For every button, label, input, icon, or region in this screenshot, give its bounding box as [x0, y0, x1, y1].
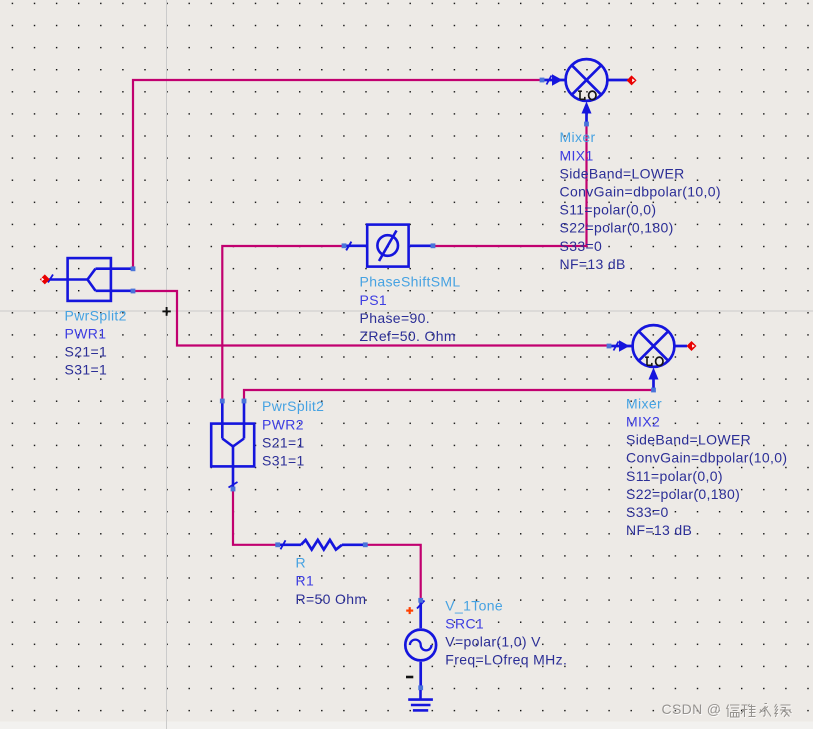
svg-text:S31=1: S31=1 — [262, 453, 305, 469]
svg-text:PWR2: PWR2 — [262, 416, 304, 432]
svg-text:Mixer: Mixer — [626, 395, 662, 411]
pin MIX1.out unconnected (red diamond) — [627, 75, 637, 85]
wire PWR2.in to R1.left — [233, 491, 277, 545]
plus sign — [406, 607, 413, 614]
label PWR1 — [65, 307, 127, 377]
svg-text:PWR1: PWR1 — [65, 326, 107, 342]
resistor R1 — [278, 540, 365, 550]
node PWR2.out2 — [242, 399, 247, 404]
node MIX1.lo — [584, 122, 589, 127]
wire PWR2.out2 to MIX2.lo — [244, 390, 653, 399]
svg-text:PwrSplit2: PwrSplit2 — [65, 307, 127, 323]
wire PWR2.out1 to PS1.in — [222, 246, 343, 399]
svg-text:S21=1: S21=1 — [262, 434, 305, 450]
svg-text:S33=0: S33=0 — [560, 238, 603, 254]
minus sign — [406, 676, 413, 679]
svg-text:NF=13 dB: NF=13 dB — [626, 522, 692, 538]
node PS1.in — [342, 243, 347, 248]
node PWR1.out2 — [131, 289, 136, 294]
svg-text:R: R — [296, 555, 306, 571]
svg-text:S31=1: S31=1 — [65, 362, 108, 378]
svg-text:S22=polar(0,180): S22=polar(0,180) — [560, 220, 674, 236]
svg-text:V_1Tone: V_1Tone — [445, 597, 503, 613]
bottom edge strip — [0, 722, 813, 729]
mixer MIX1 — [542, 59, 628, 124]
svg-text:Phase=90.: Phase=90. — [360, 310, 430, 326]
ground — [408, 690, 433, 710]
svg-text:V=polar(1,0) V: V=polar(1,0) V — [445, 634, 541, 650]
wire PWR1.out2 to MIX2.in — [134, 291, 608, 346]
node MIX2.lo — [651, 388, 656, 393]
node PWR1.out1 — [131, 266, 136, 271]
svg-text:S11=polar(0,0): S11=polar(0,0) — [626, 468, 723, 484]
wire PWR1.out1 to MIX1.in — [133, 80, 541, 267]
svg-text:SideBand=LOWER: SideBand=LOWER — [626, 432, 751, 448]
phase shifter PS1 — [344, 225, 433, 267]
svg-text:S33=0: S33=0 — [626, 504, 669, 520]
node PWR2.out1 — [220, 399, 225, 404]
pin PWR1.in unconnected (red diamond) — [40, 274, 50, 284]
power splitter PWR2 (rotated) — [211, 401, 254, 489]
watermark CSDN — [662, 701, 723, 718]
node R1.left — [275, 542, 280, 547]
svg-text:S21=1: S21=1 — [65, 344, 108, 360]
svg-text:NF=13 dB: NF=13 dB — [560, 256, 626, 272]
wire PS1.out to MIX1.lo — [433, 125, 587, 246]
node R1.right — [363, 542, 368, 547]
node PS1.out — [431, 243, 436, 248]
label MIX2 — [626, 395, 787, 538]
svg-text:Freq=LOfreq MHz.: Freq=LOfreq MHz. — [445, 652, 567, 668]
svg-text:SRC1: SRC1 — [445, 616, 484, 632]
mixer MIX2 — [609, 325, 687, 390]
node MIX2.in — [607, 344, 612, 349]
label PWR2 — [262, 398, 324, 468]
svg-text:S22=polar(0,180): S22=polar(0,180) — [626, 486, 740, 502]
label SRC1 — [445, 597, 567, 667]
watermark chinese glyphs — [727, 704, 793, 718]
svg-text:ConvGain=dbpolar(10,0): ConvGain=dbpolar(10,0) — [626, 450, 787, 466]
svg-text:PhaseShiftSML: PhaseShiftSML — [360, 274, 461, 290]
svg-text:Mixer: Mixer — [560, 129, 596, 145]
label PS1 — [360, 274, 461, 344]
node MIX1.in — [540, 78, 545, 83]
node SRC1.plus — [418, 598, 423, 603]
svg-text:ZRef=50. Ohm: ZRef=50. Ohm — [360, 328, 456, 344]
svg-text:MIX1: MIX1 — [560, 147, 594, 163]
svg-text:ConvGain=dbpolar(10,0): ConvGain=dbpolar(10,0) — [560, 184, 721, 200]
node PWR2.in — [231, 487, 236, 492]
svg-text:R1: R1 — [296, 573, 315, 589]
svg-text:CSDN @: CSDN @ — [662, 701, 722, 717]
svg-text:R=50 Ohm: R=50 Ohm — [296, 591, 367, 607]
svg-text:PS1: PS1 — [360, 292, 388, 308]
wire R1.right to SRC1.plus — [366, 545, 421, 599]
node SRC1.minus — [418, 685, 423, 690]
svg-text:MIX2: MIX2 — [626, 414, 660, 430]
voltage source SRC1 — [405, 601, 436, 688]
label R1 — [296, 555, 367, 607]
pin MIX2.out unconnected (red diamond) — [687, 341, 697, 351]
svg-text:PwrSplit2: PwrSplit2 — [262, 398, 324, 414]
power splitter PWR1 — [48, 258, 133, 301]
svg-text:S11=polar(0,0): S11=polar(0,0) — [560, 202, 657, 218]
label MIX1 — [560, 129, 721, 272]
svg-text:SideBand=LOWER: SideBand=LOWER — [560, 165, 685, 181]
